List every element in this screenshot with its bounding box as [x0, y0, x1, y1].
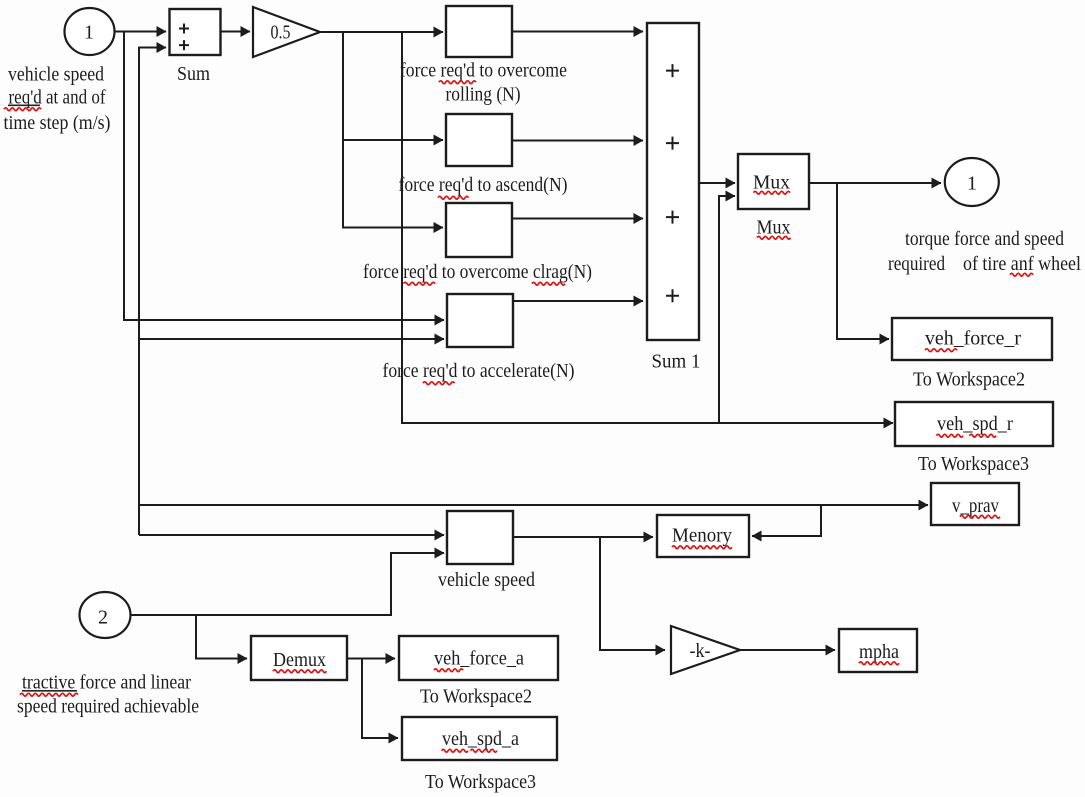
label: tractive force and linear — [20, 672, 191, 697]
mux block Mux — [738, 154, 809, 209]
block: force req'd to accelerate — [447, 294, 513, 347]
svg-text:-k-: -k- — [690, 640, 711, 662]
wire: port2 to vehicle speed in2 — [131, 553, 445, 615]
wire: Mux out branch down to veh_force_r — [837, 183, 889, 339]
wire: feedback from v_prav line into Memory right side — [752, 505, 821, 536]
Sum1 plus sign 3 — [666, 211, 679, 224]
veh_force_a text — [434, 648, 524, 672]
label: required of tire anf wheel — [888, 253, 1081, 276]
label: force req'd to overcome clrag(N) — [363, 261, 592, 285]
block mpha — [839, 629, 917, 672]
svg-text:force req'd to overcome clrag(: force req'd to overcome clrag(N) — [363, 261, 592, 283]
svg-text:mpha: mpha — [859, 641, 899, 663]
label: req'd at and of (line 2) — [4, 87, 106, 111]
wire: accelerate block out to Sum1 in4 — [513, 300, 643, 302]
gain block 0.5 triangle — [253, 7, 320, 57]
svg-text:0.5: 0.5 — [271, 22, 291, 44]
svg-text:torque force and speed: torque force and speed — [905, 228, 1064, 250]
svg-text:Menory: Menory — [672, 525, 732, 547]
wire: long branch down to veh_spd_r — [402, 32, 893, 423]
svg-text:To Workspace3: To Workspace3 — [425, 771, 536, 793]
sum block Sum 1 — [647, 23, 699, 340]
Sum plus sign 2 — [179, 40, 189, 50]
sum block Sum — [170, 9, 221, 55]
svg-text:Mux: Mux — [753, 172, 790, 194]
wire: port1 to Sum in1 — [114, 31, 166, 33]
v_prav text — [952, 495, 1000, 518]
wire: port2 branch down to Demux — [196, 615, 247, 659]
svg-text:of tire anf wheel: of tire anf wheel — [963, 253, 1081, 275]
wire: Demux branch down to veh_spd_a — [362, 659, 398, 739]
mpha text — [859, 641, 899, 665]
wire: feedback branch to v_prav — [139, 504, 928, 506]
block veh_spd_r — [895, 402, 1053, 446]
wire: rolling block out to Sum1 in1 — [512, 31, 643, 33]
wire: vehicle speed out to Memory — [513, 536, 653, 538]
wire: -k- out to mpha — [740, 649, 835, 651]
wire: Mux out to output port 1 — [809, 182, 941, 184]
veh_spd_a text — [442, 728, 520, 752]
label: force req'd to overcome — [400, 60, 567, 84]
wire: feedback branch to accelerate block in2 — [139, 338, 444, 340]
svg-text:speed required achievable: speed required achievable — [17, 696, 199, 718]
veh_force_r text — [925, 328, 1021, 352]
svg-text:v_prav: v_prav — [952, 495, 999, 517]
svg-text:rolling (N): rolling (N) — [446, 84, 521, 106]
svg-text:force req'd to accelerate(N): force req'd to accelerate(N) — [383, 360, 575, 382]
Mux block text — [753, 172, 790, 195]
wire: branch down to drag block — [343, 140, 443, 228]
svg-text:Mux: Mux — [757, 217, 791, 239]
svg-text:To Workspace3: To Workspace3 — [918, 453, 1029, 475]
svg-text:required: required — [888, 253, 945, 275]
Sum1 plus sign 1 — [666, 64, 679, 77]
svg-text:1: 1 — [967, 173, 977, 195]
wire: port1 branch down to accelerate block in1 — [124, 31, 444, 321]
wire: gain 0.5 out to rolling block — [320, 31, 443, 33]
svg-text:vehicle speed: vehicle speed — [8, 64, 104, 86]
wire: ascend block out to Sum1 in2 — [512, 140, 643, 142]
svg-text:Demux: Demux — [273, 649, 326, 671]
svg-text:veh_force_r: veh_force_r — [925, 328, 1021, 350]
svg-text:vehicle speed: vehicle speed — [438, 569, 535, 591]
input port 2 circle — [80, 592, 131, 638]
svg-text:time step (m/s): time step (m/s) — [4, 112, 111, 134]
wire: Sum out to gain 0.5 — [221, 31, 250, 33]
Menory text — [672, 525, 732, 549]
svg-text:Sum: Sum — [177, 63, 210, 85]
wire: branch down to gain -k- — [600, 537, 665, 650]
block veh_force_r — [892, 318, 1052, 360]
Sum1 plus sign 2 — [666, 137, 679, 150]
wire: branch down to ascend block — [343, 32, 443, 140]
wire: feedback branch to vehicle speed in1 — [139, 534, 444, 536]
wire: Demux out to veh_force_a — [347, 658, 395, 660]
svg-text:veh_spd_r: veh_spd_r — [937, 413, 1013, 435]
svg-text:To Workspace2: To Workspace2 — [913, 369, 1025, 391]
input port 1 circle — [65, 8, 115, 55]
label: force req'd to ascend(N) — [399, 174, 568, 199]
output port 1 circle — [945, 158, 999, 206]
block Memory — [657, 515, 749, 557]
gain block -k- triangle — [671, 626, 740, 674]
Sum plus sign 1 — [179, 24, 189, 34]
wire: drag block out to Sum1 in3 — [512, 218, 643, 220]
svg-text:force req'd to overcome: force req'd to overcome — [400, 60, 567, 82]
svg-text:veh_spd_a: veh_spd_a — [442, 728, 519, 750]
label: force req'd to accelerate(N) — [383, 360, 575, 385]
block: force req'd to overcome drag — [446, 203, 512, 257]
wire: Sum1 out to Mux in1 — [699, 182, 735, 184]
svg-text:Sum 1: Sum 1 — [652, 351, 701, 373]
block v_prav — [931, 483, 1019, 525]
block: force req'd to overcome rolling — [446, 6, 512, 57]
wire: branch up to Mux in2 — [719, 196, 735, 423]
Sum1 plus sign 4 — [666, 289, 679, 302]
block vehicle speed — [447, 511, 513, 564]
svg-text:To Workspace2: To Workspace2 — [420, 686, 532, 708]
label Mux — [757, 217, 791, 240]
veh_spd_r text — [937, 413, 1014, 437]
svg-text:2: 2 — [98, 607, 108, 629]
block veh_spd_a — [402, 717, 557, 760]
block veh_force_a — [399, 636, 558, 680]
wire: feedback vertical to Sum in2 — [139, 48, 166, 536]
block Demux — [251, 636, 347, 680]
Demux text — [273, 649, 326, 673]
svg-text:force req'd to ascend(N): force req'd to ascend(N) — [399, 174, 568, 196]
svg-text:veh_force_a: veh_force_a — [434, 648, 524, 670]
block: force req'd to ascend — [446, 114, 512, 166]
svg-text:1: 1 — [84, 22, 94, 44]
